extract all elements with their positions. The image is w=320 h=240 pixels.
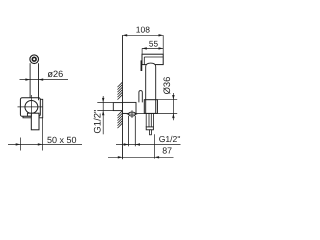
dimension 55 [142,48,163,54]
escutcheon back plate sliver [23,99,43,118]
holder ring [144,100,157,114]
riser pipe [30,63,38,100]
tail end cup [146,127,153,130]
handle tail below holder [146,113,153,127]
shower head [142,54,163,64]
dimension 108 [123,35,164,54]
svg-text:G1/2": G1/2" [159,134,181,144]
G1/2" outlet dimension line [116,144,181,146]
svg-text:Ø36: Ø36 [161,77,172,95]
shower handle [146,63,156,113]
holder hook bar [140,60,142,71]
bottom line through body/holder + Ø36 ext [123,112,178,114]
wall line [122,35,124,159]
G1/2 inlet stub behind wall [113,103,122,111]
svg-text:108: 108 [136,24,150,34]
outlet pipe down [128,116,135,146]
lever handle hanging down [31,113,39,130]
knob circle [25,100,38,113]
svg-text:55: 55 [149,39,159,48]
left G1/2" dimension [97,96,113,134]
hose stub under handle [150,130,152,135]
outlet nipple ellipse [128,112,135,116]
wall hatching upper [118,82,123,99]
escutcheon plate 50x50 [20,98,40,117]
wall hatching lower [118,111,123,128]
dimension 87 [108,134,174,158]
lever pivot nub [27,113,31,116]
centrelines of knob [18,95,43,120]
svg-text:87: 87 [162,146,172,156]
pipe top ring [30,55,39,64]
dimension Ø36 [157,93,177,120]
holder pin on body [139,91,142,103]
dimension Ø26 [20,79,69,81]
pipe hidden edge inside plate [38,98,40,101]
svg-text:50 x 50: 50 x 50 [47,135,77,145]
svg-text:ø26: ø26 [47,69,63,79]
mixer body [123,102,137,113]
dimension 50 x 50 [8,118,82,151]
svg-text:G1/2": G1/2" [93,110,104,134]
